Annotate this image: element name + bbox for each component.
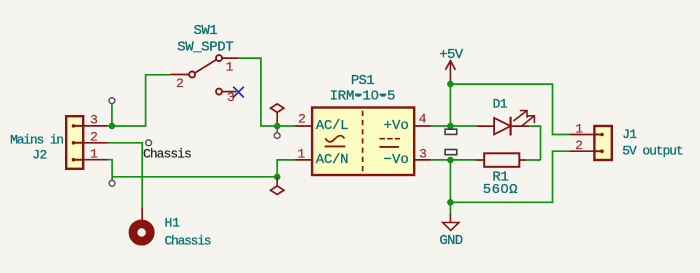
svg-text:4: 4 — [419, 112, 427, 127]
mounting hole H1 symbol — [133, 224, 150, 241]
connector J2 body — [66, 116, 83, 169]
net tie marker above -Vo junction — [445, 150, 457, 155]
svg-text:AC/N: AC/N — [316, 152, 348, 168]
wire +5V row to J1.1 — [450, 84, 569, 134]
zero glyph dot patch for IRM-10-5 value — [373, 93, 376, 97]
wire PS1.4 to D1 anode — [431, 125, 476, 127]
wire D1 cathode down to R1 — [526, 126, 541, 160]
power flag PF1 (AC/L) — [271, 104, 284, 126]
svg-text:Chassis: Chassis — [143, 146, 191, 161]
svg-text:2: 2 — [90, 130, 98, 145]
svg-text:1: 1 — [90, 146, 98, 161]
svg-text:1: 1 — [575, 122, 583, 137]
junction at GND row — [447, 199, 454, 206]
PS1 pin 3 line — [414, 159, 431, 161]
wire SW1.1 to PS1.2 — [239, 58, 295, 126]
PS1 AC symbol — [325, 136, 346, 147]
junction at PS1.4 row — [447, 123, 454, 130]
PS1 pin 1 line — [295, 159, 313, 161]
chassis pin of H1 — [141, 208, 143, 221]
wire -Vo down to GND row — [449, 160, 451, 202]
J2 pin 2 — [83, 142, 108, 144]
wire AC/N row horizontal — [112, 176, 277, 178]
net tie marker below +Vo junction — [445, 129, 457, 134]
J2 pin 1 — [83, 159, 108, 161]
junction at AC/N row — [274, 174, 281, 181]
svg-text:PS1: PS1 — [351, 73, 374, 89]
svg-text:1: 1 — [297, 147, 305, 162]
svg-text:2: 2 — [176, 76, 184, 91]
svg-text:+Vo: +Vo — [384, 118, 409, 134]
svg-text:3: 3 — [90, 113, 98, 128]
hyphen widening for IRM-10-5 value — [355, 94, 362, 96]
ground symbol GND — [443, 202, 459, 230]
svg-text:3: 3 — [419, 147, 427, 162]
dangling label circle at Chassis — [146, 140, 152, 146]
svg-text:D1: D1 — [493, 97, 508, 112]
power flag PF2 (AC/N) — [271, 177, 284, 195]
svg-text:SW_SPDT: SW_SPDT — [177, 39, 233, 55]
no-connect X at SW1.3 — [233, 87, 244, 98]
junction at J2.3 — [109, 123, 116, 130]
svg-text:2: 2 — [575, 138, 583, 153]
wire J2.3 to SW1.2 — [108, 75, 170, 126]
dangling end circle below PS1.2 junction — [274, 133, 280, 139]
svg-text:Mains in: Mains in — [10, 132, 63, 147]
wire PS1.3 to R1 left — [431, 159, 475, 161]
dangling end circle below J2.1 corner — [109, 180, 115, 186]
resistor R1 body — [475, 153, 526, 167]
connector J1 body — [594, 126, 611, 160]
svg-text:J1: J1 — [622, 127, 637, 142]
svg-text:2: 2 — [298, 112, 306, 127]
wire +5V down to PS1.4 row — [449, 84, 451, 126]
dangling end circle above J2.3 — [109, 98, 115, 104]
wire J2.3 junction up to dangling end — [111, 104, 113, 127]
junction at PS1.2 — [274, 123, 281, 130]
power symbol +5V — [445, 61, 455, 84]
J1 pin 1 line — [570, 134, 595, 136]
module PS1 body — [312, 108, 414, 176]
svg-text:J2: J2 — [32, 148, 46, 163]
wire J2.2 to chassis column — [108, 143, 142, 208]
svg-text:1: 1 — [226, 59, 234, 74]
svg-text:GND: GND — [439, 233, 462, 249]
svg-text:+5V: +5V — [439, 47, 464, 63]
zero glyph dot patch for 560 value — [503, 186, 506, 190]
svg-text:H1: H1 — [165, 216, 181, 231]
svg-text:−Vo: −Vo — [384, 152, 409, 168]
J2 pin 3 — [83, 125, 108, 127]
svg-text:560Ω: 560Ω — [483, 182, 518, 198]
svg-text:Chassis: Chassis — [165, 234, 211, 249]
dangling stub below PS1.2 junction — [276, 128, 278, 133]
svg-text:SW1: SW1 — [193, 23, 217, 39]
switch SW1 symbol — [170, 55, 238, 95]
LED D1 symbol — [477, 117, 530, 136]
svg-text:5V output: 5V output — [622, 144, 683, 159]
PS1 pin 2 line — [295, 125, 313, 127]
wire GND row to J1.2 — [450, 151, 569, 202]
junction at PS1.3 row — [447, 157, 454, 164]
J1 pin 2 line — [570, 150, 595, 152]
svg-text:IRM-10-5: IRM-10-5 — [330, 88, 396, 104]
svg-text:AC/L: AC/L — [316, 118, 348, 134]
LED D1 emission arrows — [513, 111, 534, 127]
junction at +5V — [447, 81, 454, 88]
PS1 DC symbol — [379, 139, 400, 147]
wire AC/N row up to PS1.1 — [277, 160, 294, 177]
PS1 pin 4 line — [414, 125, 431, 127]
dangling stub below J2.1 corner — [111, 177, 113, 181]
wire J2.1 down to AC/N row — [108, 160, 112, 177]
